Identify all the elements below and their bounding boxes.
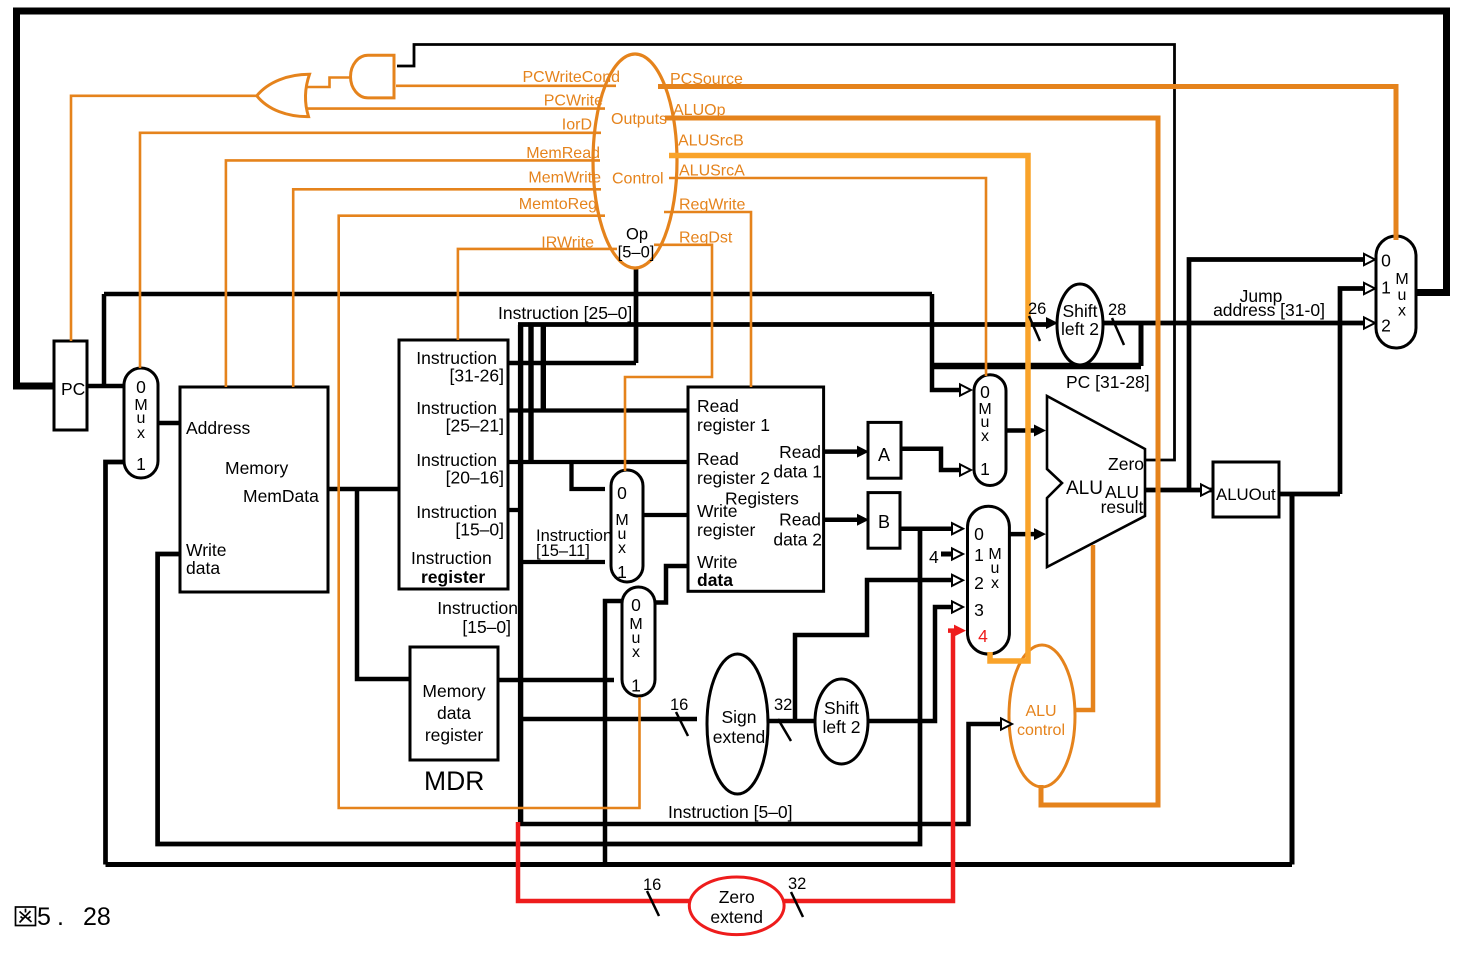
svg-text:Memory: Memory <box>422 681 485 701</box>
svg-text:ALUSrcB: ALUSrcB <box>678 133 744 150</box>
svg-text:Zero: Zero <box>719 887 755 907</box>
svg-text:register: register <box>421 567 485 587</box>
svg-text:extend: extend <box>713 727 766 747</box>
mux ALUSrcB (0-4) <box>968 506 1010 654</box>
svg-text:MemData: MemData <box>243 486 319 506</box>
svg-text:B: B <box>878 512 890 532</box>
arrow solid: ALUSrcB mux output into ALU <box>1034 528 1046 540</box>
wire shift left 2 (bottom) output to ALUSrcB mux input 3 <box>868 607 952 721</box>
svg-text:Control: Control <box>612 171 664 188</box>
wire ALUOut feedback to MemtoReg mux input 0 <box>605 601 622 865</box>
wire IorD mux output to Memory Address <box>158 421 180 426</box>
wire AND output jog to OR input <box>305 78 351 88</box>
wire MemData output to Instruction register <box>328 487 399 492</box>
instruction register <box>399 340 508 589</box>
svg-text:u: u <box>1398 287 1407 304</box>
WIRES-RED <box>518 631 953 901</box>
arrow red: zero extend into ALUSrcB mux input 4 <box>954 625 966 637</box>
register PC <box>54 341 87 430</box>
svg-text:1: 1 <box>631 676 641 696</box>
wire Instruction[15-11] to RegDst mux input 1 <box>521 560 605 564</box>
svg-text:IRWrite: IRWrite <box>541 235 594 252</box>
wire ALUSrcA mux output to ALU <box>1006 428 1035 433</box>
wire Instruction[15-0] to sign extend <box>521 717 697 722</box>
wire Instruction[31-26] to Control Op input <box>508 361 636 366</box>
kanji 図 drawn as SVG <box>16 907 36 926</box>
wire instruction bus vertical [15-0] <box>518 325 523 824</box>
arrow open: 4 into ALUSrcB mux input 1 <box>952 548 963 559</box>
wire MemtoReg mux output to Write data <box>655 566 688 603</box>
wire Instruction[20-16] to Read register 2 <box>508 460 688 464</box>
wire zero extend path from Instruction[15-0] bus <box>518 822 690 901</box>
svg-text:Memory: Memory <box>225 458 288 478</box>
AND gate (left-facing, orange) <box>351 55 394 98</box>
svg-text:0: 0 <box>980 382 990 402</box>
wire ALUOut feedback to IorD mux input 1 <box>106 462 125 865</box>
wire RegDst mux output to Write register <box>643 513 688 517</box>
wire PCSource select <box>658 87 1396 241</box>
svg-text:result: result <box>1101 497 1144 517</box>
svg-text:[25–21]: [25–21] <box>446 416 504 436</box>
wire RegDst select <box>625 245 712 471</box>
wire Instruction[25-0] line to shift left 2 <box>518 322 1046 327</box>
svg-text:0: 0 <box>136 377 146 397</box>
wire PC output to IorD mux input 0 <box>87 384 123 389</box>
wire B register output to ALUSrcB mux input 0 <box>900 526 952 531</box>
svg-text:[15–0]: [15–0] <box>462 617 511 637</box>
svg-text:0: 0 <box>1381 251 1391 271</box>
svg-text:Address: Address <box>186 418 250 438</box>
svg-text:register 1: register 1 <box>697 415 770 435</box>
svg-text:PC [31-28]: PC [31-28] <box>1066 372 1150 392</box>
mux RegDst (0/1 write register) <box>611 470 643 582</box>
svg-text:.: . <box>57 903 64 931</box>
svg-text:control: control <box>1017 722 1065 739</box>
wire RegWrite select <box>664 212 751 387</box>
svg-text:left 2: left 2 <box>823 717 861 737</box>
svg-text:data 1: data 1 <box>773 462 822 482</box>
mux PCSource (0/1/2 top right) <box>1376 236 1416 348</box>
wire PC[31-28] riser to jump address line <box>1139 323 1144 366</box>
svg-text:ALUSrcA: ALUSrcA <box>679 163 745 180</box>
svg-text:A: A <box>878 445 890 465</box>
arrow open: sign extend into ALUSrcB mux input 2 <box>952 575 963 586</box>
svg-text:RegWrite: RegWrite <box>679 197 745 214</box>
wire B register to Memory Write data (bottom line) <box>158 529 920 844</box>
wire MemRead select <box>226 160 600 387</box>
svg-text:Shift: Shift <box>1062 301 1097 321</box>
wire Zero signal: ALU zero output up and left to AND gate <box>397 45 1175 461</box>
svg-text:16: 16 <box>670 696 688 714</box>
svg-text:1: 1 <box>136 454 146 474</box>
svg-text:2: 2 <box>1381 316 1391 336</box>
svg-text:32: 32 <box>788 875 806 893</box>
svg-text:register: register <box>697 520 756 540</box>
wire IorD select <box>140 133 601 368</box>
svg-text:MemWrite: MemWrite <box>528 170 601 187</box>
svg-text:Instruction: Instruction <box>437 598 518 618</box>
svg-text:0: 0 <box>631 595 641 615</box>
wire sign extend output to ALUSrcB mux input 2 <box>768 580 952 721</box>
arrow open: jump address into PCSource mux input 2 <box>1364 317 1375 328</box>
svg-text:Op: Op <box>626 226 648 244</box>
GATES <box>257 55 394 116</box>
register ALUOut <box>1213 462 1279 517</box>
wire Read data 1 to A register <box>824 449 857 454</box>
mux MemtoReg (0/1 write data) <box>622 587 655 696</box>
svg-text:Write: Write <box>697 552 738 572</box>
svg-text:data: data <box>697 570 733 590</box>
svg-text:Sign: Sign <box>721 707 756 727</box>
svg-text:Read: Read <box>779 510 821 530</box>
svg-text:x: x <box>632 644 640 661</box>
wire ALUOut to PCSource mux input 1 <box>1340 289 1365 495</box>
wire ALUSrcB mux output to ALU <box>1009 532 1035 537</box>
wire Instruction[20-16] tap to RegDst mux input 0 <box>572 462 606 489</box>
svg-text:MDR: MDR <box>424 766 484 796</box>
svg-text:MemRead: MemRead <box>526 145 600 162</box>
memory data register MDR <box>410 647 498 760</box>
wire Instruction[5-0] line to ALU control <box>518 724 1001 824</box>
wire IRWrite select <box>458 249 617 340</box>
svg-text:ALUOp: ALUOp <box>673 102 726 119</box>
svg-text:extend: extend <box>710 907 763 927</box>
svg-text:Instruction [25–0]: Instruction [25–0] <box>498 303 632 323</box>
svg-text:ALUOut: ALUOut <box>1216 485 1276 504</box>
wire MemtoReg select <box>339 216 640 808</box>
svg-text:Write: Write <box>697 501 738 521</box>
svg-text:PC: PC <box>61 379 85 399</box>
svg-text:[20–16]: [20–16] <box>446 468 504 488</box>
svg-text:1: 1 <box>617 562 627 582</box>
wire main PC line (y=294) <box>104 292 932 297</box>
shift left 2 (jump address) <box>1057 284 1103 365</box>
wire ALUOut feedback riser from ALUOut output <box>1290 494 1295 865</box>
svg-text:IorD: IorD <box>562 117 592 134</box>
wire zero extend output to ALUSrcB mux input 4 <box>783 631 953 901</box>
mux IorD (0/1 before Memory) <box>124 368 158 478</box>
wire Op riser into Control bottom <box>634 266 639 363</box>
wire ALU control output to ALU <box>1074 545 1093 710</box>
svg-text:address [31-0]: address [31-0] <box>1213 300 1325 320</box>
svg-text:[15–0]: [15–0] <box>455 520 504 540</box>
arrow open: A into ALUSrcA mux input 1 <box>960 464 971 475</box>
svg-text:0: 0 <box>974 524 984 544</box>
svg-text:RegDst: RegDst <box>679 230 733 247</box>
wire ALUSrcA select <box>669 178 986 376</box>
wire ALUOut feedback bottom line <box>106 862 1293 867</box>
figure caption 図5.28 <box>16 903 111 931</box>
wire PC output riser to main PC line <box>102 294 107 386</box>
svg-text:26: 26 <box>1028 300 1046 318</box>
wire PCWrite to OR gate <box>303 107 605 110</box>
arrow solid: read data 1 into A <box>857 446 869 458</box>
arrow open: shift left 2 into ALUSrcB mux input 3 <box>952 601 963 612</box>
zero extend (red) <box>689 877 784 935</box>
wire instruction bus vertical [25-21] <box>541 325 546 412</box>
svg-text:1: 1 <box>974 545 984 565</box>
svg-text:Shift: Shift <box>824 698 859 718</box>
svg-text:[15–11]: [15–11] <box>536 542 590 560</box>
wire PC-write loop: mux output to PC input (top/left/right border) <box>17 11 1447 386</box>
svg-text:register 2: register 2 <box>697 468 770 488</box>
svg-text:4: 4 <box>978 626 988 646</box>
register file Registers <box>688 387 824 591</box>
svg-text:Read: Read <box>697 396 739 416</box>
wire Read data 2 to B register <box>824 517 857 522</box>
wire MDR output to MemtoReg mux input 1 <box>498 678 614 683</box>
svg-text:data: data <box>186 558 220 578</box>
svg-text:Outputs: Outputs <box>611 111 667 128</box>
arrow solid: read data 2 into B <box>857 514 869 526</box>
svg-text:1: 1 <box>980 459 990 479</box>
svg-text:Write: Write <box>186 540 227 560</box>
svg-text:Zero: Zero <box>1108 454 1144 474</box>
arrow open: Instruction[5-0] into ALU control <box>1001 718 1012 729</box>
svg-text:[5–0]: [5–0] <box>618 244 655 262</box>
wire ALUOp select <box>665 118 1158 805</box>
svg-text:Instruction: Instruction <box>411 548 492 568</box>
wire MemData drop to Memory data register <box>357 489 410 679</box>
control unit ellipse <box>593 54 677 268</box>
wire instruction bus vertical [20-16] <box>528 325 533 463</box>
svg-text:Read: Read <box>779 442 821 462</box>
svg-text:M: M <box>1395 271 1408 288</box>
wire OR output to PC write enable <box>71 96 257 341</box>
svg-text:ALU: ALU <box>1025 703 1056 720</box>
svg-text:[31-26]: [31-26] <box>450 366 504 386</box>
arrow solid: ALUSrcA mux output into ALU <box>1034 425 1046 437</box>
svg-text:28: 28 <box>1108 301 1126 319</box>
arrow open: ALUOut into PCSource mux input 1 <box>1364 283 1375 294</box>
svg-text:3: 3 <box>974 600 984 620</box>
svg-text:PCWriteCond: PCWriteCond <box>522 69 620 86</box>
ALU <box>1047 396 1145 567</box>
wire Instruction[15-0] row stub <box>508 508 521 512</box>
svg-text:Instruction [5–0]: Instruction [5–0] <box>668 802 793 822</box>
wire MemWrite select <box>293 189 601 387</box>
svg-text:data: data <box>437 703 471 723</box>
svg-text:register: register <box>425 725 484 745</box>
wire PCWriteCond to AND gate <box>396 85 616 88</box>
WIRES-ORANGE <box>71 78 1396 809</box>
OR gate (left-facing, orange) <box>257 74 310 116</box>
svg-text:x: x <box>981 428 989 445</box>
svg-text:MemtoReg: MemtoReg <box>519 196 597 213</box>
svg-text:0: 0 <box>617 483 627 503</box>
register A <box>868 422 901 478</box>
svg-text:x: x <box>618 540 626 557</box>
wire PC[31-28] line <box>932 363 1141 370</box>
ALU control (orange) <box>1009 645 1075 787</box>
wire ALUSrcB select <box>669 156 1028 662</box>
svg-text:1: 1 <box>1381 278 1391 298</box>
wire Instruction[25-21] to Read register 1 <box>508 408 688 412</box>
wire ALUOut output <box>1279 492 1340 497</box>
svg-text:x: x <box>1398 303 1406 320</box>
wire constant 4 into ALUSrcB mux input 1 <box>941 552 951 557</box>
svg-text:2: 2 <box>974 573 984 593</box>
arrow open: ALU result into ALUOut <box>1201 484 1212 495</box>
svg-text:PCWrite: PCWrite <box>544 93 603 110</box>
shift left 2 (branch offset) <box>815 679 868 764</box>
register B <box>868 493 900 549</box>
arrow solid: Instruction[25-0] into shift left 2 <box>1046 317 1058 329</box>
wire A register output to ALUSrcA mux input 1 <box>900 449 960 470</box>
mux ALUSrcA (0/1) <box>974 375 1006 486</box>
ARROWHEADS <box>857 254 1375 730</box>
svg-text:x: x <box>137 425 145 442</box>
svg-text:5: 5 <box>37 903 51 931</box>
svg-text:4: 4 <box>929 547 939 567</box>
svg-text:28: 28 <box>83 903 111 931</box>
arrow open: ALU result into PCSource mux input 0 <box>1364 254 1375 265</box>
svg-text:32: 32 <box>774 696 792 714</box>
svg-text:16: 16 <box>643 876 661 894</box>
svg-text:x: x <box>991 575 999 592</box>
memory unit <box>180 387 328 592</box>
wire shift left 2 output / jump address to PCSource mux input 2 <box>1103 321 1365 326</box>
arrow open: PC line into ALUSrcA mux input 0 <box>960 384 971 395</box>
svg-text:ALU: ALU <box>1066 478 1103 499</box>
sign extend <box>707 654 768 794</box>
arrow open: B into ALUSrcB mux input 0 <box>952 523 963 534</box>
svg-text:Read: Read <box>697 449 739 469</box>
svg-text:data 2: data 2 <box>773 530 822 550</box>
wire ALU result to PCSource mux input 0 <box>1189 260 1365 491</box>
svg-text:left 2: left 2 <box>1061 319 1099 339</box>
wire ALU result to ALUOut <box>1145 488 1213 493</box>
wire PC line drop to ALUSrcA mux input 0 <box>932 294 960 390</box>
svg-text:PCSource: PCSource <box>670 71 743 88</box>
